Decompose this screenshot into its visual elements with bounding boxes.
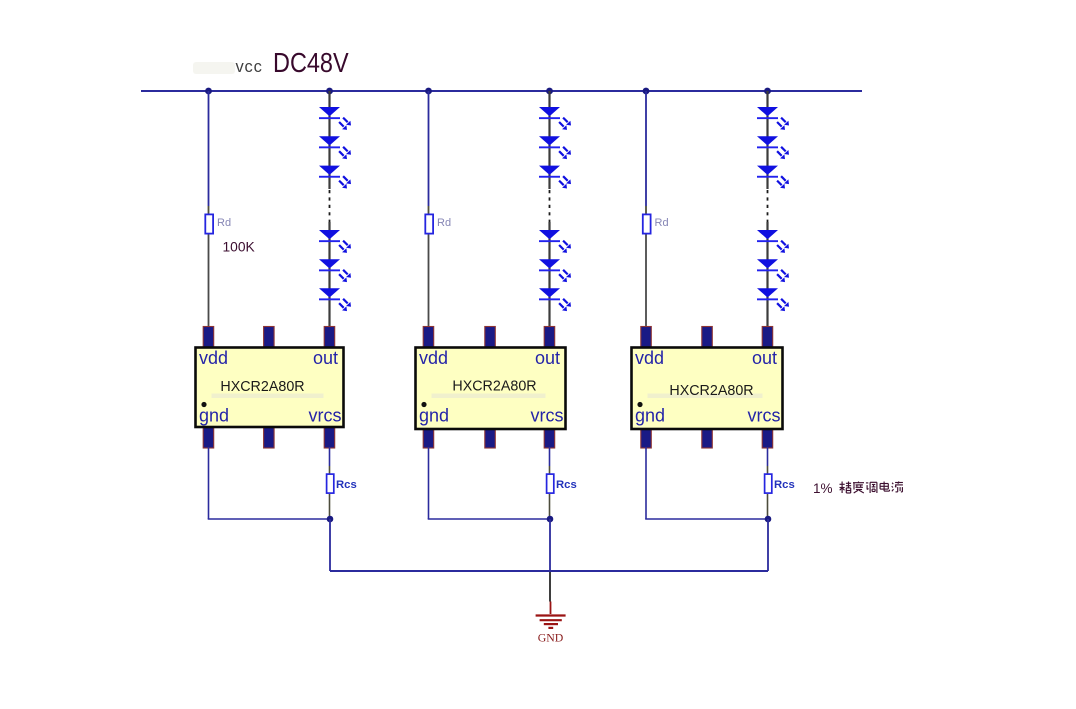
LED D2f [539,288,571,311]
resistor Rcs (channel 1) [327,474,334,493]
svg-text:gnd: gnd [199,406,229,426]
pin out U1 (top) [324,327,335,348]
pin vdd U3 (top) [641,327,652,348]
node: Rcs1 junction [327,516,334,523]
wire gnd1 horizontal to node [208,518,330,520]
svg-text:Rd: Rd [217,217,231,229]
wire rail to LED string 3 (upper) [766,91,768,189]
wire LED string 2 dashed continuation [549,190,551,222]
LED D2b [539,136,571,159]
wire rail to Rd2 [428,91,430,206]
LED D1c [319,166,351,189]
pin-1 marker dot U2 [421,402,426,407]
svg-text:out: out [535,348,560,368]
resistor Rd (channel 3) [643,214,651,233]
svg-text:vdd: vdd [199,348,228,368]
wire vrcs pin U2 to Rcs [549,447,551,466]
pin vrcs U1 (bottom) [324,426,335,448]
LED D1e [319,259,351,282]
svg-text:Rcs: Rcs [336,479,357,491]
node: rail junction Rd3 [643,88,650,95]
resistor Rd (channel 1) [205,214,213,233]
svg-text:HXCR2A80R: HXCR2A80R [452,379,536,395]
svg-text:vrcs: vrcs [748,406,781,426]
pin out U2 (top) [544,327,555,348]
svg-text:gnd: gnd [635,406,665,426]
resistor Rcs (channel 3) [765,474,772,493]
svg-text:vdd: vdd [635,348,664,368]
pin (nc top) U3 (top) [702,327,713,348]
node: rail junction Rd1 [205,88,212,95]
LED D1b [319,136,351,159]
svg-text:Rd: Rd [437,217,451,229]
pin gnd U1 (bottom) [203,426,214,448]
wire vrcs pin U1 to Rcs [329,447,331,466]
wire Rd1 to vdd pin [208,235,210,329]
LED D2e [539,259,571,282]
wire bus to ground symbol (black) [549,572,551,602]
pin vrcs U2 (bottom) [544,428,555,448]
svg-text:vcc: vcc [236,58,263,76]
wire LED string 3 (lower) to out pin [766,222,768,328]
wire gnd pin U1 down [208,447,210,519]
node: Rcs3 junction [765,516,772,523]
LED D2a [539,107,571,130]
node: rail junction LED string 3 [764,88,771,95]
wire gnd pin U2 down [428,447,430,519]
svg-text:out: out [752,348,777,368]
svg-text:100K: 100K [223,240,256,255]
svg-text:vrcs: vrcs [531,406,564,426]
pin gnd U3 (bottom) [641,428,652,448]
wire rail to LED string 1 (upper) [328,91,330,189]
glyph 电 [880,482,889,492]
svg-text:vdd: vdd [419,348,448,368]
wire Rcs2 to node [549,494,551,519]
op-amp/driver IC U1 HXCR2A80R [196,348,344,428]
node: rail junction LED string 1 [326,88,333,95]
svg-text:Rd: Rd [655,217,669,229]
wire gnd pin U3 down [645,447,647,519]
pin-1 marker dot U1 [201,402,206,407]
resistor Rd (channel 2) [425,214,433,233]
LED D1d [319,230,351,253]
pin out U3 (top) [762,327,773,348]
glyph 流 [892,482,903,492]
pin vdd U1 (top) [203,327,214,348]
wire gnd2 horizontal to node [428,518,550,520]
pin (nc top) U2 (top) [485,327,496,348]
wire LED string 2 (lower) to out pin [548,222,550,328]
ground symbol [536,616,566,628]
wire rail to LED string 2 (upper) [548,91,550,189]
svg-text:HXCR2A80R: HXCR2A80R [669,383,753,399]
background smudge near vcc [193,62,235,74]
op-amp/driver IC U2 HXCR2A80R [416,348,566,430]
wire node 2 to ground bus [549,519,551,571]
wire ground symbol lead (red) [550,602,552,615]
pin (nc bottom) U3 (bottom) [702,428,713,448]
wire Rd2 to vdd pin [428,235,430,329]
svg-text:Rcs: Rcs [774,479,795,491]
svg-text:DC48V: DC48V [273,48,349,78]
svg-text:GND: GND [538,631,564,645]
wire VCC rail [141,90,862,92]
svg-text:Rcs: Rcs [556,479,577,491]
wire Rcs1 to node [329,494,331,519]
svg-text:HXCR2A80R: HXCR2A80R [220,379,304,395]
op-amp/driver IC U3 HXCR2A80R [632,348,783,430]
pin vrcs U3 (bottom) [762,428,773,448]
pin gnd U2 (bottom) [423,428,434,448]
LED D3e [757,259,789,282]
LED D3c [757,166,789,189]
pin-1 marker dot U3 [637,402,642,407]
wire gnd3 horizontal to node [645,518,767,520]
wire ground bus [330,570,768,572]
LED D3d [757,230,789,253]
wire LED string 1 (lower) to out pin [328,222,330,328]
pin (nc bottom) U1 (bottom) [264,426,275,448]
wire rail to Rd3 [645,91,647,206]
glyph 精 [840,482,852,494]
node: rail junction LED string 2 [546,88,553,95]
LED D3a [757,107,789,130]
svg-text:gnd: gnd [419,406,449,426]
wire LED string 3 dashed continuation [767,190,769,222]
node: rail junction Rd2 [425,88,432,95]
wire rail to Rd1 [208,91,210,206]
wire node 3 to ground bus [767,519,769,571]
LED D2d [539,230,571,253]
pin vdd U2 (top) [423,327,434,348]
glyph 调 [866,482,877,493]
wire Rd3 to vdd pin [645,235,647,329]
glyph 度 [853,482,864,494]
node: Rcs2 junction [547,516,554,523]
resistor Rcs (channel 2) [547,474,554,493]
LED D2c [539,166,571,189]
svg-text:1%: 1% [813,481,833,496]
wire vrcs pin U3 to Rcs [767,447,769,466]
svg-text:vrcs: vrcs [309,406,342,426]
wire Rcs3 to node [767,494,769,519]
svg-text:out: out [313,348,338,368]
LED D3f [757,288,789,311]
value label DC48V [273,48,349,78]
LED D1a [319,107,351,130]
LED D3b [757,136,789,159]
pin (nc top) U1 (top) [264,327,275,348]
LED D1f [319,288,351,311]
wire LED string 1 dashed continuation [329,190,331,222]
pin (nc bottom) U2 (bottom) [485,428,496,448]
wire node 1 to ground bus [329,519,331,571]
